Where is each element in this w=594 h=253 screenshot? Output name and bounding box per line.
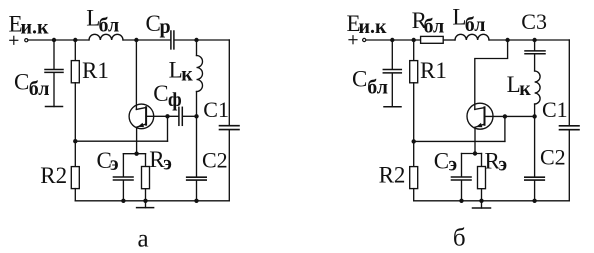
svg-text:C1: C1 xyxy=(203,97,229,122)
svg-text:бл: бл xyxy=(465,14,486,36)
svg-text:э: э xyxy=(499,154,508,176)
svg-text:р: р xyxy=(160,16,171,38)
svg-text:ф: ф xyxy=(168,89,182,111)
svg-text:R1: R1 xyxy=(82,58,109,83)
svg-text:а: а xyxy=(138,225,149,252)
svg-text:R2: R2 xyxy=(40,163,67,188)
svg-text:С: С xyxy=(434,148,449,173)
svg-text:C2: C2 xyxy=(202,147,228,172)
svg-text:к: к xyxy=(519,78,531,100)
svg-text:и.к: и.к xyxy=(21,16,50,38)
svg-text:и.к: и.к xyxy=(359,16,388,38)
svg-text:R2: R2 xyxy=(379,163,406,188)
svg-text:э: э xyxy=(163,153,172,175)
svg-text:бл: бл xyxy=(99,15,120,37)
svg-text:C2: C2 xyxy=(540,145,566,170)
svg-text:R1: R1 xyxy=(420,58,447,83)
svg-text:бл: бл xyxy=(29,78,50,100)
svg-text:к: к xyxy=(181,64,193,86)
svg-text:C1: C1 xyxy=(542,97,568,122)
svg-text:C3: C3 xyxy=(521,9,547,34)
svg-text:С: С xyxy=(352,67,367,92)
svg-text:бл: бл xyxy=(367,77,388,99)
svg-text:э: э xyxy=(449,154,458,176)
svg-text:С: С xyxy=(14,69,29,94)
svg-text:э: э xyxy=(110,153,119,175)
svg-text:С: С xyxy=(153,81,168,106)
svg-text:б: б xyxy=(453,225,466,252)
svg-text:бл: бл xyxy=(424,15,445,37)
